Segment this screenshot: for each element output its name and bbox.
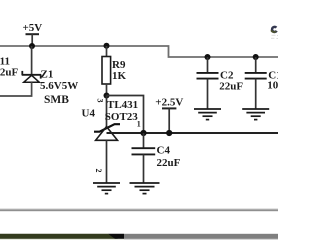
svg-text:SOT23: SOT23 <box>105 111 139 123</box>
svg-text:22uF: 22uF <box>157 157 181 169</box>
svg-text:100uF: 100uF <box>267 80 278 92</box>
node mid junction <box>140 130 146 136</box>
capacitor C2 <box>197 57 244 109</box>
power +2.5V <box>155 96 183 133</box>
bottom band black wedge <box>108 234 124 239</box>
ground (C4) <box>130 183 160 194</box>
capacitor C4 <box>132 133 181 183</box>
window divider line <box>0 209 278 211</box>
svg-text:R9: R9 <box>112 59 126 71</box>
svg-text:22uF: 22uF <box>219 81 243 93</box>
zener Z1 <box>22 69 78 106</box>
node R9 bottom junction <box>104 93 110 99</box>
node C2 top junction <box>205 54 211 60</box>
capacitor C1 (clipped at right edge) <box>245 57 297 109</box>
svg-text:1K: 1K <box>112 70 127 82</box>
node R9 top junction <box>104 43 110 49</box>
bottom band olive segment <box>0 234 118 239</box>
bottom band gray segment <box>124 234 278 239</box>
svg-text:+5V: +5V <box>23 22 43 34</box>
ground (C1) <box>242 109 269 120</box>
stray faint marks below glyph <box>271 35 278 39</box>
svg-text:3: 3 <box>96 99 105 103</box>
ground (TL431 anode) <box>93 183 120 194</box>
svg-text:Z1: Z1 <box>41 69 54 81</box>
svg-text:1: 1 <box>137 120 141 129</box>
bottom band light underline <box>0 239 124 240</box>
ground (C2) <box>194 109 221 120</box>
svg-text:+2.5V: +2.5V <box>155 96 183 108</box>
node +5V junction <box>29 43 35 49</box>
svg-text:TL431: TL431 <box>107 99 138 111</box>
wire top rail <box>0 46 278 57</box>
stray glyph fragment top-right <box>272 27 277 32</box>
svg-text:22uF: 22uF <box>0 67 19 79</box>
op-amp U4 TL431 <box>82 96 141 184</box>
wire R9 junction to mid rail corner <box>107 96 144 134</box>
svg-text:U4: U4 <box>82 108 96 120</box>
svg-text:5.6V5W: 5.6V5W <box>40 80 78 92</box>
node +2.5V junction <box>166 130 172 136</box>
resistor R9 <box>102 46 127 96</box>
power +5V <box>23 22 43 46</box>
capacitor C11 label (clipped at left edge) <box>0 56 19 79</box>
wire Z1 anode to left edge <box>0 82 32 96</box>
node C1 top junction <box>253 54 259 60</box>
svg-text:C4: C4 <box>157 145 171 157</box>
svg-text:2: 2 <box>94 169 103 173</box>
svg-text:C2: C2 <box>220 69 234 81</box>
wire Z1 cathode stem <box>31 46 33 75</box>
svg-text:SMB: SMB <box>44 94 69 106</box>
wire mid rail (REF / +2.5V net) <box>107 132 279 134</box>
